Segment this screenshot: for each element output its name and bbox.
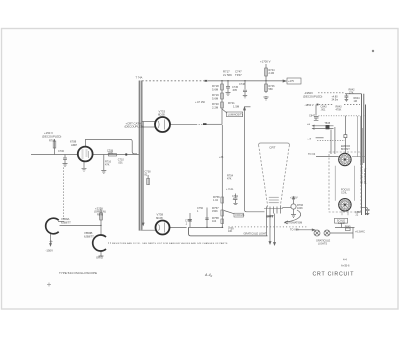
svg-text:T 74A: T 74A xyxy=(136,76,143,80)
svg-text:+1700 V: +1700 V xyxy=(260,60,271,64)
svg-text:TO V4: TO V4 xyxy=(308,153,316,156)
svg-text:27K: 27K xyxy=(349,91,354,94)
svg-text:(DECOUPLED): (DECOUPLED) xyxy=(125,125,144,129)
svg-text:GRATICULE LIGHT: GRATICULE LIGHT xyxy=(244,232,267,236)
svg-text:+ X AL: + X AL xyxy=(226,188,234,191)
svg-text:(DECOUPLED): (DECOUPLED) xyxy=(42,135,61,139)
svg-text:HEATER SUPPLY: HEATER SUPPLY xyxy=(361,165,364,184)
svg-text:C847: C847 xyxy=(309,114,316,117)
svg-text:ILLUM: ILLUM xyxy=(338,223,345,225)
svg-text:+ A? 150: + A? 150 xyxy=(195,101,206,104)
svg-text:-150V: -150V xyxy=(46,249,54,253)
svg-text:1.5M: 1.5M xyxy=(233,104,240,108)
svg-text:56K: 56K xyxy=(269,88,274,91)
svg-text:34.5m: 34.5m xyxy=(332,99,339,102)
svg-text:6DJ8: 6DJ8 xyxy=(156,216,163,220)
svg-text:AMP: AMP xyxy=(71,143,77,147)
svg-text:R708: R708 xyxy=(49,140,56,143)
svg-text:+35: +35 xyxy=(219,156,224,159)
svg-text:A+35-6: A+35-6 xyxy=(341,263,350,267)
svg-text:FOCUS: FOCUS xyxy=(236,214,245,217)
svg-text:2.2M: 2.2M xyxy=(269,72,275,75)
svg-text:6JB6TT: 6JB6TT xyxy=(84,234,94,238)
svg-text:R860: R860 xyxy=(97,214,104,217)
svg-text:ASTIGMATISM: ASTIGMATISM xyxy=(285,221,303,225)
svg-text:47K: 47K xyxy=(105,163,110,166)
svg-text:C700: C700 xyxy=(58,150,65,153)
svg-text:(DECOUPLED): (DECOUPLED) xyxy=(303,94,322,98)
svg-text:TP47: TP47 xyxy=(235,73,242,77)
svg-text:+475: +475 xyxy=(288,79,294,83)
svg-text:.001: .001 xyxy=(118,161,123,164)
svg-text:5.6M: 5.6M xyxy=(212,96,219,100)
svg-text:T845: T845 xyxy=(324,122,330,125)
svg-text:1000: 1000 xyxy=(108,152,114,155)
svg-text:R849: R849 xyxy=(345,226,351,229)
svg-text:1.04: 1.04 xyxy=(213,199,218,202)
svg-text:2.2M: 2.2M xyxy=(212,105,219,109)
svg-text:TYPE 544 OSCILLOSCOPE: TYPE 544 OSCILLOSCOPE xyxy=(59,271,97,275)
svg-text:6JB6TT: 6JB6TT xyxy=(61,220,71,224)
svg-text:LIGHTS: LIGHTS xyxy=(318,242,327,245)
svg-text:C746: C746 xyxy=(239,83,246,86)
svg-text:GRID: GRID xyxy=(96,256,103,260)
svg-text:←a: ←a xyxy=(307,138,312,141)
svg-text:LUMINOSITY: LUMINOSITY xyxy=(228,114,244,117)
svg-text:(DECOUPLED): (DECOUPLED) xyxy=(365,168,367,184)
svg-text:CRT CIRCUIT: CRT CIRCUIT xyxy=(313,271,355,277)
svg-text:100K: 100K xyxy=(297,207,303,210)
svg-text:104: 104 xyxy=(212,220,217,223)
svg-text:LV 56K: LV 56K xyxy=(223,73,232,77)
svg-text:TO V59: TO V59 xyxy=(290,229,299,232)
svg-text:4-4: 4-4 xyxy=(343,258,347,262)
svg-text:1M: 1M xyxy=(354,100,357,103)
svg-text:+6.3VAC: +6.3VAC xyxy=(355,230,365,233)
svg-text:-1850 V: -1850 V xyxy=(305,103,314,107)
svg-text:+225V: +225V xyxy=(290,195,298,199)
svg-text:.001: .001 xyxy=(321,108,326,111)
svg-text:.005: .005 xyxy=(232,89,237,92)
svg-text:47K: 47K xyxy=(227,178,232,181)
svg-text:150K: 150K xyxy=(212,210,218,213)
svg-text:470K: 470K xyxy=(336,108,342,111)
svg-text:BOOST: BOOST xyxy=(341,148,350,151)
svg-text:RESISTORS ARE 1/2 W · SEE PA: RESISTORS ARE 1/2 W · SEE PARTS LIST FOR… xyxy=(112,242,228,245)
svg-text:CRT: CRT xyxy=(269,145,275,149)
svg-text:10K: 10K xyxy=(228,230,233,233)
svg-text:6DJ8: 6DJ8 xyxy=(158,113,165,117)
svg-text:5.6M: 5.6M xyxy=(212,87,219,91)
svg-text:COIL: COIL xyxy=(341,191,347,194)
